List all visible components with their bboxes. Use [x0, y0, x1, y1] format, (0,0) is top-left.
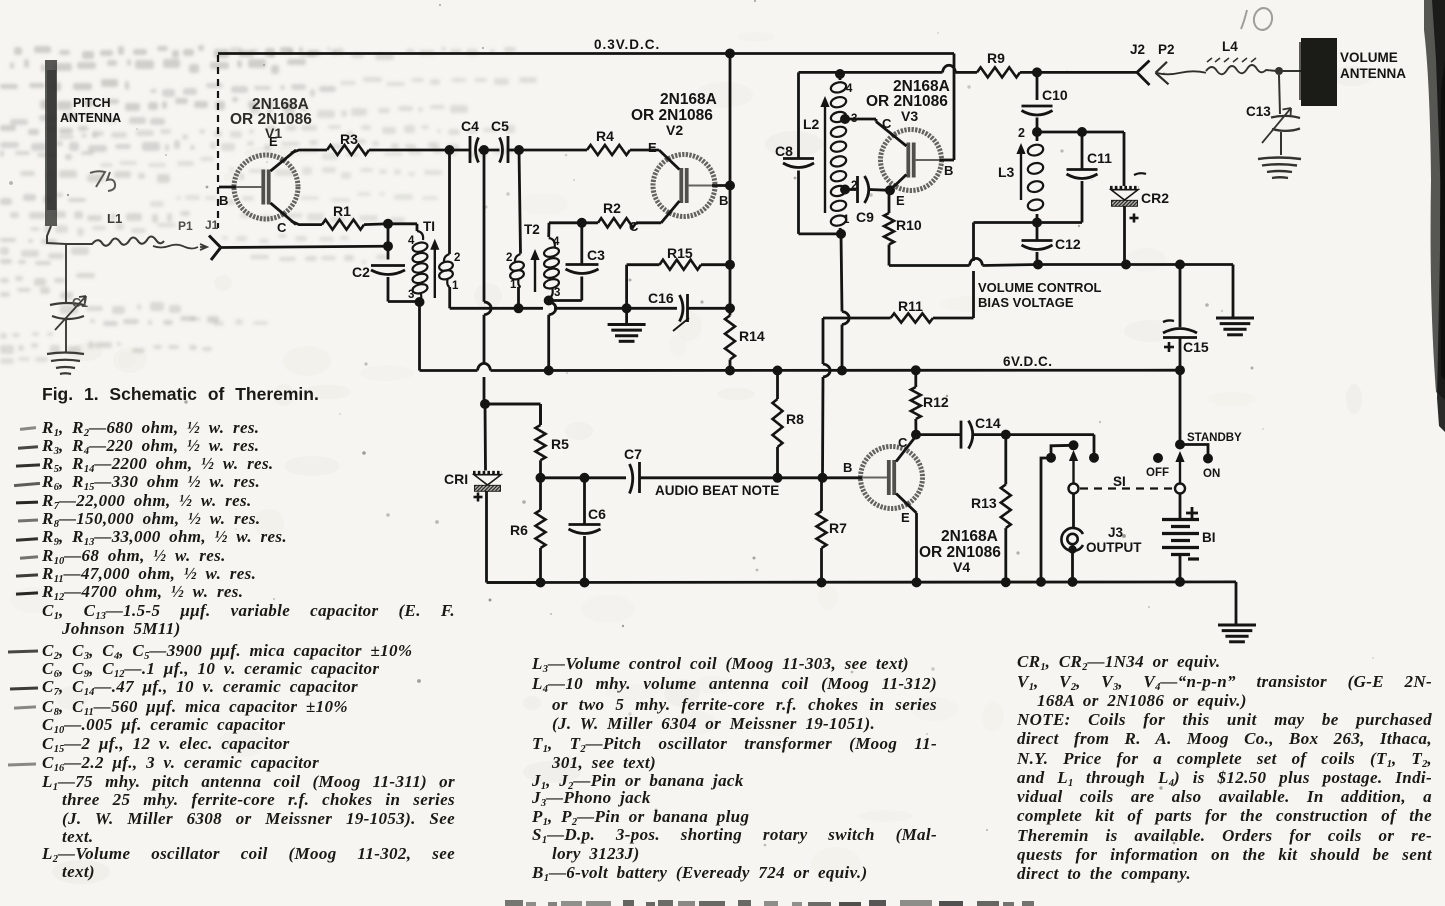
- svg-text:4: 4: [408, 235, 415, 247]
- wire CR2 bottom: [1123, 207, 1126, 265]
- resistor R15: [660, 245, 702, 270]
- wire R3 to C4: [369, 149, 449, 152]
- wire C11 bottom: [1037, 181, 1082, 223]
- transformer T1 primary: [412, 219, 435, 302]
- svg-text:2N168A: 2N168A: [941, 528, 998, 545]
- switch S1 coupling dashed: [1080, 487, 1174, 489]
- node C4 left: [445, 145, 455, 155]
- wire standby drop: [1179, 370, 1182, 444]
- wire bottom rail: [487, 581, 1237, 584]
- node R14 top: [725, 303, 735, 313]
- ground for C1 hand-drawn: [47, 353, 84, 375]
- wire center to left contact: [1051, 445, 1074, 457]
- wire C14 net to S1: [1006, 435, 1094, 453]
- node V4 base junction: [818, 473, 828, 483]
- svg-text:VOLUME CONTROL: VOLUME CONTROL: [978, 280, 1102, 295]
- resistor R1: [322, 203, 364, 230]
- node V4 collector: [911, 430, 921, 440]
- node R13 top: [1001, 430, 1011, 440]
- svg-text:3: 3: [408, 289, 414, 301]
- wire osc bottom: [519, 307, 627, 310]
- resistor R8: [773, 371, 805, 478]
- wire V4 collector: [915, 435, 918, 436]
- svg-text:C: C: [882, 116, 892, 131]
- wire L2 pin1 to rail: [841, 234, 849, 371]
- label L2 pin1: [843, 214, 850, 226]
- wire to C14: [916, 433, 960, 436]
- node R8 bottom: [773, 473, 783, 483]
- node T2 pin1: [514, 303, 524, 313]
- node T1 pin3: [415, 297, 425, 307]
- mark C15 minus: [1163, 320, 1174, 322]
- wire detector vertical: [484, 150, 491, 404]
- label L3 pin2: [1018, 126, 1025, 140]
- node R5 R6 audio: [536, 473, 546, 483]
- capacitor C12: [1022, 223, 1081, 253]
- label V4 E: [901, 510, 910, 525]
- capacitor C4: [461, 118, 479, 163]
- label T1 pin1: [452, 280, 459, 292]
- node C4 C5 junction: [470, 145, 489, 155]
- svg-text:R15: R15: [667, 245, 693, 261]
- label BIAS VOLTAGE: [978, 295, 1074, 310]
- label V2 C: [629, 219, 639, 234]
- svg-text:3: 3: [554, 287, 560, 299]
- svg-text:R5: R5: [551, 436, 569, 452]
- label L2 pin2: [851, 180, 857, 192]
- svg-text:P2: P2: [1158, 42, 1175, 57]
- capacitor C14: [961, 415, 1001, 449]
- wire C6 bottom: [583, 536, 586, 583]
- svg-text:ANTENNA: ANTENNA: [60, 111, 121, 125]
- svg-text:L4: L4: [1222, 39, 1238, 54]
- svg-text:R9: R9: [987, 50, 1005, 66]
- label L2 pin3: [851, 113, 857, 125]
- node R7 rail: [817, 578, 827, 588]
- svg-text:C13: C13: [1246, 104, 1271, 119]
- wire R1 to T1: [364, 219, 417, 231]
- wire V2 collector: [636, 221, 661, 224]
- ground pitch oscillators: [608, 308, 646, 341]
- node ON contact: [1203, 454, 1213, 464]
- wire C8 branch: [797, 72, 800, 158]
- node standby contact: [1175, 440, 1185, 450]
- label J2: [1130, 42, 1145, 57]
- node S1 right contact: [1089, 453, 1099, 463]
- wire wiper to J3: [1072, 494, 1075, 529]
- svg-text:C9: C9: [856, 209, 874, 225]
- label V4 type: [919, 528, 1001, 575]
- resistor R4: [587, 128, 630, 155]
- wire R15 branch: [627, 265, 660, 309]
- resistor R7: [817, 478, 848, 583]
- capacitor C6: [569, 506, 607, 534]
- wire V4 emitter: [915, 513, 918, 582]
- arrow L3: [1016, 143, 1025, 200]
- phono jack J3: [1061, 528, 1083, 554]
- wire C16 to R14: [688, 307, 731, 310]
- transformer T1 secondary: [438, 150, 454, 308]
- wire C6 stem: [583, 478, 586, 525]
- switch S1 left wiper: [1069, 450, 1079, 494]
- svg-text:2: 2: [454, 252, 460, 264]
- plug P2: [1156, 62, 1207, 85]
- wire left contact to ground rail: [1041, 458, 1051, 582]
- wire 6V.D.C. rail: [420, 302, 1181, 371]
- svg-text:0.3V.D.C.: 0.3V.D.C.: [594, 37, 660, 52]
- svg-text:R14: R14: [739, 328, 765, 344]
- mark C16 tick: [673, 318, 689, 331]
- capacitor C16: [648, 290, 688, 322]
- label V2 type: [631, 91, 717, 138]
- wire C12 bottom: [1036, 252, 1039, 265]
- wire R4 to V2 E: [630, 149, 659, 152]
- svg-text:AUDIO BEAT NOTE: AUDIO BEAT NOTE: [655, 483, 779, 498]
- wire V2 base vertical: [729, 54, 732, 265]
- label V1 C: [277, 220, 287, 235]
- svg-text:V3: V3: [901, 108, 918, 124]
- resistor R5: [536, 404, 570, 478]
- svg-text:VOLUME: VOLUME: [1340, 50, 1398, 65]
- arrow T2: [530, 249, 539, 292]
- node R9 right: [1032, 67, 1042, 77]
- wire C11 to CR2: [1082, 132, 1124, 186]
- wire C3 stem: [580, 223, 583, 265]
- svg-text:TI: TI: [423, 219, 435, 234]
- svg-text:R2: R2: [603, 200, 621, 216]
- node C6 rail: [580, 578, 590, 588]
- label V4 B: [843, 460, 852, 475]
- ground C13 hand-drawn: [1258, 158, 1301, 179]
- wire tap to C9: [845, 188, 856, 191]
- label V1 E: [269, 134, 278, 149]
- svg-text:R8: R8: [786, 411, 804, 427]
- svg-text:E: E: [896, 193, 905, 208]
- node T2 pin3 rail: [544, 366, 554, 376]
- wire C9 to E: [869, 188, 890, 192]
- label OFF: [1146, 467, 1169, 479]
- svg-text:ANTENNA: ANTENNA: [1340, 66, 1406, 81]
- label T2 pin4: [553, 236, 560, 248]
- capacitor C5: [491, 118, 509, 163]
- svg-text:C7: C7: [624, 446, 642, 462]
- svg-text:J2: J2: [1130, 42, 1145, 57]
- jack J1: [209, 236, 388, 261]
- svg-text:T2: T2: [524, 222, 540, 237]
- arrow T1: [430, 239, 439, 298]
- diode CR2: [1110, 173, 1169, 222]
- wire J3 to rail: [1071, 550, 1074, 582]
- jack J2: [1137, 61, 1150, 86]
- wire C11 stem: [1081, 132, 1084, 170]
- node R15 right: [725, 260, 735, 270]
- transistor V3: [876, 122, 954, 191]
- wire standby to on: [1180, 445, 1208, 456]
- wire C3 bottom: [549, 277, 582, 301]
- coil L3: [998, 132, 1044, 223]
- wire to R5: [485, 404, 541, 425]
- label V1 type: [230, 96, 312, 141]
- ground volume section: [1216, 318, 1254, 335]
- label B1 plus: [1186, 507, 1198, 519]
- node R8 top: [773, 366, 783, 376]
- resistor R14: [725, 265, 765, 371]
- label VOLUME ANTENNA: [1340, 50, 1406, 81]
- node volume antenna: [1275, 67, 1283, 75]
- label V2 E: [648, 140, 657, 155]
- node L2 pin2 tap: [840, 185, 850, 195]
- battery B1: [1162, 494, 1199, 582]
- svg-text:1: 1: [843, 214, 850, 226]
- svg-text:C11: C11: [1087, 150, 1112, 166]
- svg-text:C2: C2: [352, 264, 370, 280]
- wire rail to ground: [1232, 265, 1235, 318]
- capacitor C10: [1022, 87, 1068, 115]
- wire R11 left drop: [823, 318, 831, 478]
- svg-text:R7: R7: [829, 520, 847, 536]
- label J3: [1108, 525, 1124, 540]
- wire R15 to V2 base line: [701, 263, 730, 266]
- svg-text:C: C: [277, 220, 287, 235]
- svg-text:C16: C16: [648, 290, 674, 306]
- variable capacitor C1 hand-drawn: [50, 244, 88, 352]
- label L2 pin4: [846, 83, 853, 95]
- node L2 pin3 tap: [840, 114, 850, 124]
- svg-text:C14: C14: [975, 415, 1001, 431]
- wire L2 tap to V3 C: [845, 119, 876, 122]
- svg-text:C6: C6: [588, 506, 606, 522]
- wire bottom rail to ground: [1235, 582, 1238, 624]
- label STANDBY: [1187, 432, 1242, 444]
- node L3 bottom: [1032, 218, 1042, 228]
- label B1 minus: [1188, 557, 1199, 560]
- label V4 C: [898, 435, 908, 450]
- svg-text:STANDBY: STANDBY: [1187, 432, 1242, 444]
- wire C15 to rail: [1179, 338, 1182, 371]
- label S1: [1113, 474, 1126, 489]
- resistor R3: [327, 131, 369, 155]
- resistor R9: [962, 50, 1037, 77]
- node R14 bottom: [725, 366, 735, 376]
- node volume rail C15: [1175, 260, 1185, 270]
- node R5 CR1 junction: [480, 399, 490, 409]
- svg-text:1: 1: [452, 280, 459, 292]
- switch S1 right wiper: [1175, 451, 1185, 494]
- label ON: [1203, 468, 1220, 480]
- label J1: [205, 218, 219, 232]
- svg-text:C5: C5: [491, 118, 509, 134]
- capacitor C3: [566, 247, 606, 274]
- transistor V1: [219, 150, 298, 225]
- node C6 top: [580, 473, 590, 483]
- svg-text:BIAS VOLTAGE: BIAS VOLTAGE: [978, 295, 1074, 310]
- svg-text:V1: V1: [265, 125, 282, 141]
- node left contact rail: [1036, 577, 1046, 587]
- wire rail corner down to V3 base: [953, 54, 956, 161]
- node S1 left contact: [1046, 453, 1056, 463]
- svg-text:B: B: [843, 460, 852, 475]
- label V3 E: [896, 193, 905, 208]
- wire T1 sec bottom: [450, 307, 519, 310]
- svg-text:BI: BI: [1202, 530, 1216, 545]
- label T2 pin3: [554, 287, 560, 299]
- wire C10 to L3: [1036, 118, 1039, 133]
- svg-text:R12: R12: [923, 394, 949, 410]
- wire L2 top line: [799, 65, 963, 72]
- node J3 rail: [1068, 577, 1078, 587]
- svg-text:R4: R4: [596, 128, 614, 144]
- wire antenna lead: [47, 226, 66, 244]
- svg-text:CR2: CR2: [1141, 190, 1169, 206]
- coil L4 hand-drawn: [1206, 39, 1277, 74]
- svg-text:C4: C4: [461, 118, 479, 134]
- svg-text:R1: R1: [333, 203, 351, 219]
- svg-text:4: 4: [553, 236, 560, 248]
- svg-text:4: 4: [846, 83, 853, 95]
- node C3 top: [577, 218, 587, 228]
- svg-text:R10: R10: [896, 217, 922, 233]
- capacitor C2: [352, 264, 405, 280]
- label P2: [1158, 42, 1175, 57]
- transformer T2 secondary: [543, 238, 560, 297]
- label T1 pin2: [454, 252, 460, 264]
- volume antenna bar: [1299, 38, 1337, 106]
- variable capacitor C13 hand-drawn: [1246, 75, 1300, 155]
- label P1: [178, 219, 193, 233]
- svg-text:E: E: [901, 510, 910, 525]
- svg-text:R6: R6: [510, 522, 528, 538]
- wire C14 right: [973, 433, 1006, 436]
- label V1 B: [219, 193, 228, 208]
- svg-text:2: 2: [1018, 126, 1025, 140]
- resistor R12: [911, 370, 949, 434]
- svg-text:C8: C8: [775, 143, 793, 159]
- node C5 right: [514, 145, 524, 155]
- transistor V2: [653, 150, 730, 223]
- node CR2 rail: [1121, 260, 1131, 270]
- resistor R6: [510, 478, 546, 583]
- transistor V4: [823, 436, 923, 513]
- svg-text:PITCH: PITCH: [73, 96, 111, 110]
- wire dashed input boundary: [217, 55, 219, 228]
- wire C8 bottom: [799, 171, 842, 234]
- coil L1 hand-drawn: [66, 211, 164, 246]
- wire to C16: [627, 307, 677, 310]
- svg-text:E: E: [648, 140, 657, 155]
- wire C5 to R4: [519, 149, 587, 152]
- svg-text:J1: J1: [205, 218, 219, 232]
- label VOLUME CONTROL: [978, 280, 1102, 295]
- node V4 emitter rail: [912, 577, 922, 587]
- label V3 type: [866, 78, 950, 124]
- label PITCH ANTENNA: [60, 96, 121, 125]
- node C12 rail: [1033, 260, 1043, 270]
- svg-text:R3: R3: [340, 131, 358, 147]
- mark C15 plus: [1164, 342, 1174, 352]
- svg-text:L1: L1: [107, 211, 122, 226]
- wire C5 to T2: [519, 150, 521, 254]
- svg-text:2: 2: [506, 252, 512, 264]
- diode CR1: [444, 404, 502, 502]
- ground main: [1218, 625, 1256, 642]
- svg-text:2N168A: 2N168A: [660, 91, 717, 108]
- wire to J2: [1037, 71, 1137, 74]
- svg-text:L2: L2: [803, 116, 820, 132]
- node R6 rail: [536, 578, 546, 588]
- wire bias riser: [974, 223, 1038, 319]
- plug P1: [200, 244, 207, 250]
- node C11 top: [1077, 127, 1087, 137]
- wire C2 branch: [383, 224, 393, 260]
- svg-text:1: 1: [510, 279, 517, 291]
- svg-text:C: C: [898, 435, 908, 450]
- svg-text:B: B: [219, 193, 228, 208]
- node L2 pin1: [836, 229, 846, 239]
- svg-text:V2: V2: [666, 122, 683, 138]
- wire R2 to T2: [549, 223, 598, 237]
- svg-text:OUTPUT: OUTPUT: [1086, 540, 1142, 555]
- label T2 pin1: [510, 279, 517, 291]
- wire audio to C6: [541, 476, 585, 479]
- svg-text:P1: P1: [178, 219, 193, 233]
- capacitor C11: [1067, 150, 1113, 179]
- node B1 rail: [1175, 577, 1185, 587]
- node OFF contact: [1153, 453, 1163, 463]
- svg-text:V4: V4: [953, 559, 970, 575]
- wire CR1 to rail: [487, 492, 541, 583]
- svg-text:C15: C15: [1183, 339, 1209, 355]
- node T2 pin3: [544, 296, 554, 306]
- svg-text:R13: R13: [971, 495, 997, 511]
- coil L2: [803, 74, 847, 234]
- svg-text:C1: C1: [72, 296, 88, 310]
- svg-text:B: B: [944, 163, 953, 178]
- resistor R2: [598, 200, 636, 227]
- svg-text:SI: SI: [1113, 474, 1126, 489]
- node L2 bottom rail: [837, 366, 847, 376]
- node V2 base on top rail: [725, 49, 735, 59]
- node L3 top: [1032, 127, 1042, 137]
- label V2 B: [719, 193, 728, 208]
- label T2 pin2: [506, 252, 512, 264]
- capacitor C9: [856, 176, 874, 225]
- wire C2 bottom: [388, 277, 420, 302]
- wire R5 top: [485, 403, 541, 406]
- resistor R11: [823, 298, 974, 323]
- label V3 B: [944, 163, 953, 178]
- wire R10 bottom: [889, 258, 1038, 265]
- label B1: [1202, 530, 1216, 545]
- capacitor C8: [775, 143, 814, 168]
- node C15 bottom: [1175, 365, 1185, 375]
- svg-text:B: B: [719, 193, 728, 208]
- node R12 top: [911, 365, 921, 375]
- transformer T2 primary: [509, 222, 540, 308]
- pitch antenna bar: [45, 60, 57, 226]
- svg-text:J3: J3: [1108, 525, 1124, 540]
- resistor R10: [884, 190, 922, 265]
- wire R9 down: [1036, 72, 1039, 100]
- svg-text:OFF: OFF: [1146, 467, 1169, 479]
- wire L4 to antenna: [1277, 70, 1301, 72]
- wire volume rail right: [1038, 263, 1233, 266]
- svg-text:C12: C12: [1055, 236, 1081, 252]
- label J3 OUTPUT: [1086, 540, 1142, 555]
- node V2 base: [725, 181, 735, 191]
- wire C4 gap fill: [450, 149, 520, 152]
- svg-text:ON: ON: [1203, 468, 1220, 480]
- capacitor C7: [624, 446, 642, 494]
